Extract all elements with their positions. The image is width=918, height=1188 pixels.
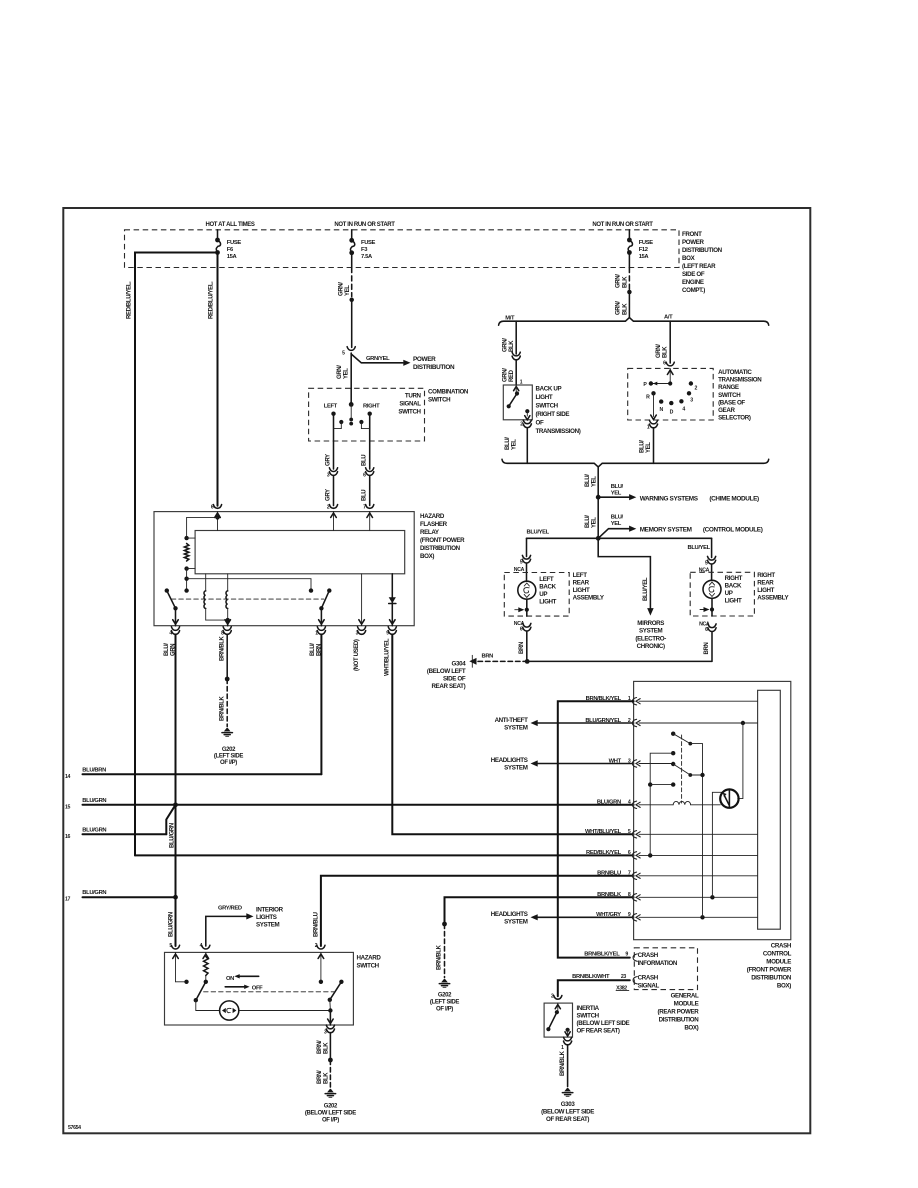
svg-text:BLU/GRN: BLU/GRN <box>597 800 621 806</box>
turn signal common node <box>349 402 354 407</box>
inertia switch arm <box>548 1012 557 1029</box>
svg-text:SIGNAL: SIGNAL <box>638 982 660 989</box>
svg-text:ASSEMBLY: ASSEMBLY <box>757 595 789 602</box>
wire resistor to contacts <box>186 569 188 591</box>
connector right lamp top <box>708 556 716 560</box>
svg-text:SWITCH: SWITCH <box>718 392 741 399</box>
backup switch entry arrow <box>514 387 519 391</box>
wire WHT/BLU/YEL relay to crash module pin 5 <box>392 635 633 835</box>
svg-text:COMBINATION: COMBINATION <box>428 389 469 396</box>
wire BLU/GRN line15 to hazard switch pin 5 <box>175 805 177 946</box>
node BRN/BLK hazard <box>328 1058 333 1063</box>
wire RED/BLK/YEL row to crash module pin 6 <box>135 854 634 856</box>
brace splitting M/T and A/T branches <box>499 318 769 326</box>
svg-text:WHT/GRY: WHT/GRY <box>596 912 621 918</box>
svg-text:ANTI-THEFT: ANTI-THEFT <box>495 717 529 724</box>
node warning systems tap <box>596 495 601 500</box>
arrow HEADLIGHTS SYSTEM (WHT) <box>538 763 634 765</box>
fuse F6 <box>215 238 220 243</box>
relay pin 8 exit <box>227 620 229 626</box>
hazard left switch arm <box>196 982 206 1000</box>
svg-text:LIGHT: LIGHT <box>536 394 553 401</box>
svg-text:BRN/BLK: BRN/BLK <box>219 635 225 661</box>
svg-text:OF I/P): OF I/P) <box>436 1007 453 1013</box>
svg-text:BLU/GRN: BLU/GRN <box>82 798 106 804</box>
node switch2 on bus <box>700 773 704 777</box>
svg-text:BLU: BLU <box>362 490 368 501</box>
svg-text:LEFT: LEFT <box>324 403 338 409</box>
row 14 wire BLU/BRN <box>83 773 322 775</box>
ground bus BRN <box>527 660 711 662</box>
connector below pin 9 <box>388 627 396 631</box>
svg-text:(BASE OF: (BASE OF <box>718 399 745 406</box>
wire pin2 node to sensor <box>738 723 743 799</box>
wire GRY to relay <box>333 476 335 506</box>
svg-text:15A: 15A <box>227 254 238 260</box>
brace merging M/T A/T to BLU/YEL <box>502 459 769 467</box>
hazard right contact node <box>319 980 323 984</box>
svg-text:BLK: BLK <box>323 1042 329 1054</box>
crash control module box <box>634 681 791 939</box>
row 15 wire BLU/GRN to crash module pin 4 <box>83 804 634 806</box>
svg-text:D: D <box>670 410 674 416</box>
wire BRN/BLU crash pin7 to hazard pin 2 <box>321 876 634 946</box>
svg-text:BLK: BLK <box>323 1072 329 1084</box>
stub left bus to NO contact <box>650 784 673 786</box>
hazard left fixed contact <box>184 980 188 984</box>
svg-text:3: 3 <box>690 397 693 403</box>
connector inertia pin 2 <box>554 996 562 1000</box>
svg-text:BRN/BLK: BRN/BLK <box>219 695 225 721</box>
svg-text:SYSTEM: SYSTEM <box>256 922 280 929</box>
crash pin9 internal wire <box>639 916 758 918</box>
svg-text:HOT AT ALL TIMES: HOT AT ALL TIMES <box>205 222 254 228</box>
svg-text:BRN/BLU: BRN/BLU <box>597 871 621 877</box>
svg-text:BLK: BLK <box>509 340 515 352</box>
wire GRY turn-left output <box>333 441 335 469</box>
svg-text:BLU/: BLU/ <box>611 484 624 490</box>
connector below pin 4 <box>171 627 179 631</box>
svg-text:7: 7 <box>628 871 631 877</box>
svg-text:NOT IN RUN OR START: NOT IN RUN OR START <box>334 222 395 228</box>
arrow to mirrors system <box>647 608 654 616</box>
connector below hazard pin 3 <box>326 1025 334 1029</box>
right lamp lower lead <box>711 598 713 616</box>
svg-text:BRN: BRN <box>704 643 710 655</box>
svg-text:BLU/: BLU/ <box>585 515 591 528</box>
back up light switch U-MT box <box>503 385 532 420</box>
svg-text:SIDE OF: SIDE OF <box>443 676 466 683</box>
svg-text:REAR: REAR <box>757 580 774 587</box>
svg-text:OF: OF <box>536 420 544 427</box>
svg-text:OFF: OFF <box>252 985 263 991</box>
svg-text:(LEFT REAR: (LEFT REAR <box>682 263 716 270</box>
svg-text:ASSEMBLY: ASSEMBLY <box>573 595 605 602</box>
svg-text:TRANSMISSION: TRANSMISSION <box>718 377 762 384</box>
svg-text:SIDE OF: SIDE OF <box>682 271 705 278</box>
svg-text:BLU/: BLU/ <box>505 437 511 450</box>
range switch entry arrow <box>669 368 671 383</box>
connector at range switch pin 6 <box>666 362 674 366</box>
svg-text:GENERAL: GENERAL <box>671 993 699 1000</box>
svg-text:BLK: BLK <box>623 303 629 315</box>
left lamp lower lead <box>526 599 528 616</box>
wire pin8 node up to sensor side <box>711 792 713 897</box>
jog line15 to line16 <box>166 805 175 835</box>
node pin9 <box>700 915 704 919</box>
crash switch 1 arm <box>673 734 690 744</box>
svg-text:BOX): BOX) <box>777 983 791 990</box>
svg-text:(NOT USED): (NOT USED) <box>354 639 360 671</box>
svg-text:(FRONT POWER: (FRONT POWER <box>420 537 465 544</box>
svg-text:AUTOMATIC: AUTOMATIC <box>718 369 752 376</box>
svg-text:(BELOW LEFT SIDE: (BELOW LEFT SIDE <box>541 1109 594 1116</box>
svg-text:LIGHT: LIGHT <box>725 598 742 605</box>
svg-text:MEMORY SYSTEM: MEMORY SYSTEM <box>640 526 692 533</box>
svg-text:RIGHT: RIGHT <box>725 575 743 582</box>
svg-text:HAZARD: HAZARD <box>357 955 382 962</box>
connector below backup switch <box>523 420 531 424</box>
row 17 wire BLU/GRN <box>83 896 176 898</box>
ground G202 (hazard) <box>327 1089 334 1093</box>
svg-text:ON: ON <box>226 976 234 982</box>
svg-text:BACK: BACK <box>725 583 742 590</box>
svg-text:FLASHER: FLASHER <box>420 521 448 528</box>
svg-text:GRY: GRY <box>326 454 332 466</box>
node left bus <box>648 782 652 786</box>
svg-text:HEADLIGHTS: HEADLIGHTS <box>491 757 528 764</box>
svg-text:RIGHT: RIGHT <box>757 572 775 579</box>
svg-text:SYSTEM: SYSTEM <box>504 765 528 772</box>
crash sensor (transistor) <box>720 789 738 807</box>
svg-text:M/T: M/T <box>505 316 515 322</box>
svg-text:1: 1 <box>520 379 523 385</box>
svg-text:BRN/BLK/WHT: BRN/BLK/WHT <box>572 974 610 980</box>
svg-text:DISTRIBUTION: DISTRIBUTION <box>682 247 723 254</box>
svg-text:BLU/GRN: BLU/GRN <box>169 912 175 937</box>
node on GRN/BLK wire <box>627 290 632 295</box>
svg-text:OF I/P): OF I/P) <box>220 760 237 766</box>
svg-text:GRN/: GRN/ <box>616 274 622 288</box>
svg-text:YEL: YEL <box>611 521 622 527</box>
svg-text:MIRRORS: MIRRORS <box>637 620 664 627</box>
svg-text:GEAR: GEAR <box>718 407 735 414</box>
relay pin 7 entry <box>369 512 371 531</box>
hazard pin4 entry resistor <box>203 954 209 958</box>
svg-text:(BELOW LEFT: (BELOW LEFT <box>427 668 466 675</box>
crash pin2 internal wire <box>639 722 758 724</box>
svg-text:HEADLIGHTS: HEADLIGHTS <box>491 911 528 918</box>
svg-text:SELECTOR): SELECTOR) <box>718 415 751 422</box>
svg-text:BRN/BLK: BRN/BLK <box>597 892 622 898</box>
hazard lamp to pin3 node <box>239 1010 331 1012</box>
svg-text:MODULE: MODULE <box>766 959 791 966</box>
svg-text:SWITCH: SWITCH <box>577 1013 600 1020</box>
node memory system tap <box>596 536 601 541</box>
svg-text:REAR: REAR <box>573 580 590 587</box>
svg-text:BLU/: BLU/ <box>164 643 170 656</box>
svg-text:BLU/: BLU/ <box>640 440 646 453</box>
svg-text:BLU/GRN: BLU/GRN <box>82 827 106 833</box>
svg-text:OF REAR SEAT): OF REAR SEAT) <box>546 1116 589 1123</box>
coil bottom bus <box>206 619 228 621</box>
svg-text:F12: F12 <box>639 247 648 253</box>
connector relay pin 7 <box>366 505 374 509</box>
relay right fixed contact <box>309 588 313 592</box>
node hazard pin 3 <box>328 1008 332 1012</box>
connector hazard pin 5 <box>171 945 179 949</box>
svg-text:CRASH: CRASH <box>638 974 659 981</box>
left stationary contact stub <box>339 420 343 424</box>
wire BRN/BLK/WHT to inertia switch <box>558 980 630 996</box>
hazard resistor lower node <box>204 980 208 984</box>
fuse F3 <box>349 238 354 243</box>
svg-text:UP: UP <box>539 591 547 598</box>
resistor node bottom <box>184 566 188 570</box>
right rear light assembly box (dashed) <box>690 572 754 616</box>
wire BLU/YEL down to right backup lamp <box>711 538 713 557</box>
inertia contact node <box>555 1010 559 1014</box>
fuse F12 <box>627 238 632 243</box>
svg-text:5: 5 <box>342 351 345 357</box>
wire BLU/YEL from brace <box>597 467 599 497</box>
svg-text:RED/BLU/YEL.: RED/BLU/YEL. <box>209 281 215 319</box>
right lamp NCA arrow <box>700 609 704 611</box>
svg-text:SYSTEM: SYSTEM <box>504 918 528 925</box>
wire to relay resistor <box>187 517 218 538</box>
svg-text:(BELOW LEFT SIDE: (BELOW LEFT SIDE <box>305 1111 356 1117</box>
svg-text:LEFT: LEFT <box>573 572 588 579</box>
svg-text:YEL: YEL <box>611 491 622 497</box>
svg-text:GRN/: GRN/ <box>616 301 622 315</box>
svg-text:GRN/: GRN/ <box>656 344 662 358</box>
svg-text:MODULE: MODULE <box>674 1001 699 1008</box>
relay pin 2 entry <box>333 512 335 531</box>
svg-text:1: 1 <box>561 1045 564 1051</box>
inertia entry arrow <box>557 1003 559 1011</box>
svg-text:RED: RED <box>509 369 515 382</box>
svg-text:WHT/BLU/YEL: WHT/BLU/YEL <box>585 829 622 835</box>
svg-text:G202: G202 <box>438 993 452 999</box>
relay diode <box>389 597 396 603</box>
connector below range switch <box>649 420 657 424</box>
svg-text:G304: G304 <box>452 661 467 668</box>
svg-text:INFORMATION: INFORMATION <box>638 960 678 967</box>
wire RED/BLU/YEL F6 to hazard relay pin 6 <box>217 253 219 506</box>
general module dashed box <box>634 948 697 990</box>
svg-text:F6: F6 <box>227 247 234 253</box>
node pin8 <box>710 895 714 899</box>
crash switch 2 contact NC <box>671 751 675 755</box>
relay right switch arm <box>327 588 331 592</box>
backup switch contact node <box>515 391 519 395</box>
crash switch 2 arm <box>671 762 675 766</box>
svg-text:(LEFT SIDE: (LEFT SIDE <box>430 1000 460 1006</box>
ground G202 (relay) <box>224 728 231 732</box>
relay pin 3 exit (not used) <box>361 574 363 626</box>
left turn contact <box>331 412 335 416</box>
crash internal switch 1 contact <box>671 732 675 736</box>
connector general module pin 9 <box>633 954 637 961</box>
contact 3 <box>687 391 691 395</box>
svg-text:INTERIOR: INTERIOR <box>256 907 284 914</box>
svg-text:BOX): BOX) <box>684 1025 698 1032</box>
svg-text:(ELECTRO-: (ELECTRO- <box>635 635 666 642</box>
svg-text:LIGHTS: LIGHTS <box>256 914 277 921</box>
wire GRN/RED to backup light switch <box>515 360 517 385</box>
svg-text:4: 4 <box>628 800 631 806</box>
svg-text:F3: F3 <box>361 247 368 253</box>
svg-text:WARNING SYSTEMS: WARNING SYSTEMS <box>640 495 699 502</box>
inertia exit arrow <box>567 1030 569 1037</box>
hazard switch box <box>165 952 354 1025</box>
connector relay pin 6 <box>213 505 221 509</box>
svg-text:YEL: YEL <box>345 285 351 296</box>
svg-text:YEL: YEL <box>592 476 598 487</box>
contact D <box>669 401 673 405</box>
connector hazard pin 4 <box>202 945 210 949</box>
svg-text:P: P <box>643 382 647 388</box>
svg-text:BLU/YEL: BLU/YEL <box>643 577 649 601</box>
svg-text:GRN/: GRN/ <box>337 365 343 379</box>
wire GRN/YEL to combination switch <box>350 353 352 404</box>
hazard pin2 entry <box>320 952 322 981</box>
svg-text:YEL: YEL <box>646 442 652 453</box>
svg-text:BOX: BOX <box>682 255 696 262</box>
hazard pin 3 exit <box>329 1011 331 1026</box>
svg-text:BRN/: BRN/ <box>317 1070 323 1084</box>
wire GRN/BLK M/T branch <box>515 321 517 354</box>
svg-text:BLU/GRN: BLU/GRN <box>82 890 106 896</box>
wire BRN/BLK to ground <box>226 635 228 679</box>
wire coil to sensor <box>691 804 721 806</box>
dashed BRN/BLK to G202 right <box>444 924 446 978</box>
ground G303 <box>564 1088 571 1092</box>
tap to power distribution <box>351 354 403 363</box>
svg-text:ENGINE: ENGINE <box>682 279 704 286</box>
svg-text:SYSTEM: SYSTEM <box>639 628 663 635</box>
wire BLU/BRN relay to line 14 <box>320 635 322 775</box>
node BRN/BLK <box>225 677 230 682</box>
svg-text:R: R <box>646 394 650 400</box>
crash module coil <box>673 801 690 804</box>
wire GRN/BLK A/T branch <box>669 321 671 363</box>
svg-text:BLK: BLK <box>663 346 669 358</box>
svg-text:G303: G303 <box>561 1101 576 1108</box>
svg-text:SWITCH: SWITCH <box>536 403 559 410</box>
wire BLU/GRN relay to line 15 <box>175 635 177 805</box>
fuse F3 feed wire <box>351 230 353 239</box>
svg-text:G202: G202 <box>222 747 236 753</box>
svg-text:OF REAR SEAT): OF REAR SEAT) <box>577 1028 620 1035</box>
wire to mirrors system <box>598 538 650 608</box>
svg-text:(BELOW LEFT SIDE: (BELOW LEFT SIDE <box>577 1020 630 1027</box>
svg-text:SWITCH: SWITCH <box>428 397 451 404</box>
hazard pin5 entry <box>175 952 177 981</box>
wire NC to left bus <box>650 753 673 855</box>
svg-text:BLU/BRN: BLU/BRN <box>82 767 106 773</box>
wire BLU/YEL continues <box>597 497 599 538</box>
relay coil 2 <box>227 574 229 591</box>
svg-text:15A: 15A <box>639 254 650 260</box>
wire relay bus to right contact <box>187 579 311 591</box>
svg-text:BRN: BRN <box>482 653 494 659</box>
node BRN bus <box>525 659 530 664</box>
svg-text:DISTRIBUTION: DISTRIBUTION <box>751 975 792 982</box>
svg-text:RIGHT: RIGHT <box>363 403 380 409</box>
wire BLU/YEL from backup switch to brace <box>526 428 528 464</box>
G304 connector arrow <box>471 655 473 667</box>
svg-text:BOX): BOX) <box>420 553 434 560</box>
svg-text:LEFT: LEFT <box>539 576 554 583</box>
right turn contact <box>368 412 372 416</box>
contact N <box>659 399 663 403</box>
hazard right switch arm <box>339 980 343 984</box>
resistor node top <box>184 536 188 540</box>
svg-text:57654: 57654 <box>68 1125 81 1131</box>
svg-text:BLU/YEL: BLU/YEL <box>688 545 711 551</box>
wire BRN/BLK/YEL crash pin1 to general module <box>558 701 634 957</box>
svg-text:4: 4 <box>682 406 685 412</box>
crash pin3 internal wire <box>639 763 673 765</box>
wire BLU/YEL bus to both rear lamps <box>527 537 712 539</box>
connector left lamp bottom <box>523 623 531 627</box>
row 16 wire BLU/GRN <box>83 833 167 835</box>
svg-text:BACK: BACK <box>539 584 556 591</box>
svg-text:YEL: YEL <box>512 439 518 450</box>
node BRN/BLK right <box>442 922 447 927</box>
relay pin 6 entry <box>217 512 219 531</box>
svg-text:DISTRIBUTION: DISTRIBUTION <box>413 364 455 371</box>
svg-text:FRONT: FRONT <box>682 231 702 238</box>
relay pin 9 exit with diode <box>391 574 393 626</box>
wire BLU/YEL down to left backup lamp <box>526 538 528 556</box>
svg-text:CRASH: CRASH <box>638 952 659 959</box>
svg-text:(RIGHT SIDE: (RIGHT SIDE <box>536 411 570 418</box>
connector right lamp bottom <box>708 624 716 628</box>
svg-text:GRN/YEL: GRN/YEL <box>366 356 390 362</box>
connector below pin 1 <box>317 627 325 631</box>
svg-text:DISTRIBUTION: DISTRIBUTION <box>420 545 461 552</box>
svg-text:BRN/BLK/YEL: BRN/BLK/YEL <box>584 951 620 957</box>
crash pin8 internal wire <box>639 896 758 898</box>
svg-text:UP: UP <box>725 590 733 597</box>
svg-text:WHT: WHT <box>609 758 622 764</box>
connector below pin 3 <box>358 627 366 631</box>
dashed BRN to G304 <box>478 660 527 662</box>
automatic transmission range switch box (dashed) <box>628 368 714 420</box>
relay left switch arm <box>165 588 169 592</box>
svg-text:BLU/: BLU/ <box>611 515 624 521</box>
svg-text:(REAR POWER: (REAR POWER <box>658 1009 700 1016</box>
node line15/relay pin4 <box>173 802 178 807</box>
crash pin7 internal wire <box>639 875 758 877</box>
svg-text:SYSTEM: SYSTEM <box>504 725 528 732</box>
hazard indicator lamp <box>220 1001 239 1020</box>
svg-text:BACK UP: BACK UP <box>536 386 562 393</box>
dashed BRN/BLK to G202 <box>226 679 228 727</box>
svg-text:7.5A: 7.5A <box>361 254 373 260</box>
connector on M/T branch <box>512 352 520 356</box>
right back up light bulb <box>703 580 721 598</box>
svg-text:RELAY: RELAY <box>420 529 440 536</box>
relay resistor <box>184 544 188 562</box>
wire RED/BLU/YEL branch from F6 to left <box>135 253 218 856</box>
relay pin 1 exit <box>320 608 322 625</box>
backup switch output node <box>525 409 529 413</box>
svg-text:NOT IN RUN OR START: NOT IN RUN OR START <box>592 222 653 228</box>
contact 2 <box>689 381 693 385</box>
